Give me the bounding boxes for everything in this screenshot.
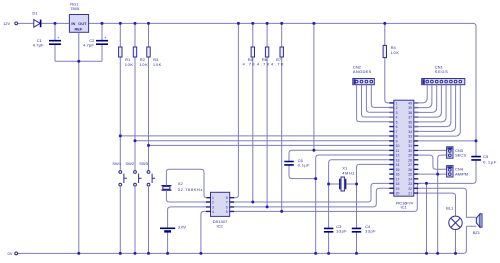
svg-text:4: 4 <box>396 116 398 120</box>
svg-text:OUT: OUT <box>78 21 87 26</box>
svg-text:10K: 10K <box>391 50 400 55</box>
svg-text:10K: 10K <box>153 62 162 67</box>
svg-text:25: 25 <box>408 173 412 177</box>
svg-text:20: 20 <box>396 192 400 196</box>
svg-text:33pF: 33pF <box>365 228 376 233</box>
svg-text:4.7K: 4.7K <box>271 62 284 67</box>
svg-text:5: 5 <box>396 120 398 124</box>
svg-text:BL1: BL1 <box>446 205 454 210</box>
svg-text:22: 22 <box>408 187 412 191</box>
svg-text:3.0V: 3.0V <box>178 224 187 229</box>
svg-text:SW1: SW1 <box>112 161 121 166</box>
svg-text:4.7K: 4.7K <box>243 62 256 67</box>
svg-text:9: 9 <box>396 139 398 143</box>
svg-text:SECS: SECS <box>455 153 466 158</box>
svg-text:3: 3 <box>212 205 214 209</box>
svg-text:2: 2 <box>396 106 398 110</box>
svg-text:13: 13 <box>396 158 400 162</box>
svg-text:IC2: IC2 <box>217 224 224 229</box>
svg-text:4.7K: 4.7K <box>257 62 270 67</box>
svg-text:BZ1: BZ1 <box>473 230 481 235</box>
svg-text:29: 29 <box>408 154 412 158</box>
svg-text:0.1µF: 0.1µF <box>298 162 311 167</box>
svg-text:D1: D1 <box>32 11 38 16</box>
svg-text:34: 34 <box>408 130 412 134</box>
svg-text:4: 4 <box>212 210 214 214</box>
svg-text:17: 17 <box>396 177 400 181</box>
svg-text:32: 32 <box>408 139 412 143</box>
svg-text:C5: C5 <box>483 154 489 159</box>
svg-text:23: 23 <box>408 182 412 186</box>
svg-text:39: 39 <box>408 106 412 110</box>
svg-text:26: 26 <box>408 168 412 172</box>
svg-text:IN: IN <box>71 21 75 26</box>
svg-text:12V: 12V <box>3 21 10 26</box>
svg-text:16: 16 <box>396 173 400 177</box>
svg-text:4.7µF: 4.7µF <box>83 42 94 47</box>
svg-text:SW3: SW3 <box>139 161 148 166</box>
svg-text:X2: X2 <box>178 181 184 186</box>
svg-text:11: 11 <box>396 149 400 153</box>
svg-text:28: 28 <box>408 158 412 162</box>
svg-text:7: 7 <box>396 130 398 134</box>
svg-text:6: 6 <box>226 205 228 209</box>
svg-text:38: 38 <box>408 111 412 115</box>
svg-text:30: 30 <box>408 149 412 153</box>
svg-text:10: 10 <box>396 144 400 148</box>
svg-text:24: 24 <box>408 177 412 181</box>
svg-text:10K: 10K <box>125 62 134 67</box>
svg-text:4.7µF: 4.7µF <box>33 42 44 47</box>
svg-text:6: 6 <box>396 125 398 129</box>
svg-text:37: 37 <box>408 116 412 120</box>
svg-text:40: 40 <box>408 101 412 105</box>
svg-text:1: 1 <box>396 101 398 105</box>
svg-text:18: 18 <box>396 182 400 186</box>
svg-text:35: 35 <box>408 125 412 129</box>
svg-text:15: 15 <box>396 168 400 172</box>
svg-text:0.1µF: 0.1µF <box>483 160 497 165</box>
svg-text:REF: REF <box>75 27 83 32</box>
svg-text:33pF: 33pF <box>336 228 347 233</box>
svg-text:8: 8 <box>396 135 398 139</box>
svg-text:10K: 10K <box>139 62 148 67</box>
svg-text:14: 14 <box>396 163 400 167</box>
svg-text:27: 27 <box>408 163 412 167</box>
svg-text:4MHz: 4MHz <box>342 171 354 176</box>
svg-text:IC1: IC1 <box>401 205 408 210</box>
svg-text:ANODES: ANODES <box>353 69 372 74</box>
svg-text:33: 33 <box>408 135 412 139</box>
svg-text:0V: 0V <box>8 251 13 256</box>
svg-text:AM/PM: AM/PM <box>455 171 468 176</box>
svg-text:SW2: SW2 <box>125 161 134 166</box>
svg-text:32.768KHz: 32.768KHz <box>178 187 203 192</box>
svg-text:5: 5 <box>226 210 228 214</box>
svg-text:12: 12 <box>396 154 400 158</box>
svg-text:19: 19 <box>396 187 400 191</box>
svg-text:31: 31 <box>408 144 412 148</box>
svg-text:36: 36 <box>408 120 412 124</box>
svg-text:2: 2 <box>212 201 214 205</box>
svg-text:3: 3 <box>396 111 398 115</box>
svg-text:SEGS: SEGS <box>435 69 448 74</box>
svg-text:21: 21 <box>408 192 412 196</box>
svg-text:7805: 7805 <box>70 6 80 11</box>
svg-text:7: 7 <box>226 201 228 205</box>
